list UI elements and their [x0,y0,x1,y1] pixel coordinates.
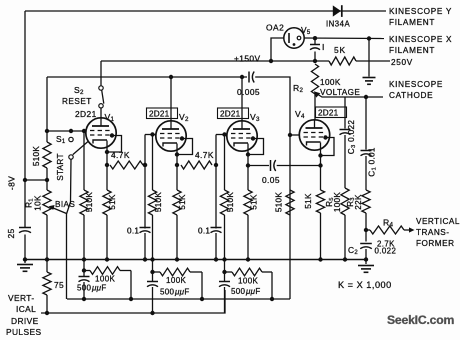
node -8V on left line [23,178,27,182]
wire V5 right to kinescope X line [304,37,384,40]
resistor R1 10K bias pot [43,190,51,215]
svg-text:K = X 1,000: K = X 1,000 [338,280,392,290]
node V1 grid dash end [110,133,114,137]
svg-text:100K: 100K [320,78,341,87]
wire C1 column top [365,97,367,150]
wire 4.7K to V2 grid col [143,164,145,166]
capacitor C2 0.022 [360,243,372,245]
node net1 right on bias rail [129,297,133,301]
wire 510K to net1 [83,215,85,271]
node 4.7K-2 right [214,163,218,167]
svg-text:4.7K: 4.7K [195,150,214,160]
node bus x=107 [105,257,109,261]
wire S2 to V1 plate [100,108,102,118]
node bus x=25 [23,257,27,261]
node cap1 top [313,36,317,40]
node net3 right on bias rail [270,297,274,301]
svg-text:KINESCOPE X: KINESCOPE X [389,35,452,44]
wire 51K V1 to bus [106,215,108,259]
resistor 4.7K (1) [110,161,143,169]
svg-text:KINESCOPE: KINESCOPE [389,80,443,89]
R1 wiper arrow [52,208,67,214]
svg-text:75: 75 [54,280,64,290]
resistor 100K (net3) [232,268,262,276]
wire R2 to V4 plate [314,94,316,120]
wire X filament drop [368,39,370,77]
switch S1 lever [73,142,88,155]
capacitor C3 0.022 [340,129,351,131]
label box 2D21 (V3) [218,108,249,119]
capacitor 500uuF (net1) [83,271,85,277]
resistor 510K (V2) [148,190,156,215]
V3 grid-cathode loop [248,139,264,155]
node bus x=47 [45,257,49,261]
node V2 4.7K-2 left [175,163,179,167]
node V3 grid dash end [251,136,255,140]
node V4 grid dash end [323,135,327,139]
svg-text:51K: 51K [108,194,117,210]
node V3 plate on line [240,75,244,79]
tube V4 2D21 [299,120,329,150]
svg-text:FILAMENT: FILAMENT [389,18,435,27]
V2 grid-cathode loop [177,139,193,155]
capacitor 500uuF (net2) [152,272,154,281]
wire V2 cathode column [176,144,178,191]
svg-text:22K: 22K [354,194,363,210]
svg-text:5K: 5K [334,45,346,55]
node V1 grid wire left [45,129,49,133]
resistor 5K [329,57,356,65]
node V4 0.05 tap [318,163,322,167]
svg-text:0.022: 0.022 [375,247,397,256]
svg-text:100K: 100K [238,277,259,286]
V5 anode bar [288,33,290,43]
wire 51K V3 to bus [247,215,249,259]
wire V3 plate column [241,77,243,121]
svg-text:C1 0.01: C1 0.01 [368,147,378,177]
V1 grid-cathode loop [107,136,122,153]
wire V2 grid coupling column [144,135,146,229]
svg-text:FORMER: FORMER [416,239,454,248]
wire V4 510K column [289,190,291,299]
node -8V tap [45,178,49,182]
node V1 4.7K left [105,163,109,167]
wire V2 plate column [170,77,172,121]
wire 0.1 V3 to bus [215,233,217,259]
resistor 510K (V1 grid) [43,142,51,168]
svg-text:IN34A: IN34A [326,20,350,29]
resistor 100K (net1) [90,267,120,275]
svg-text:I: I [322,42,325,52]
wire bias rail [67,298,290,300]
capacitor 0.005 [248,72,250,83]
label box 2D21 (V4) [316,107,347,118]
wire C3 column top [344,97,346,129]
node net1 cap on bias rail [82,297,86,301]
wire left feedback line (upper) [24,11,26,227]
node 510K tap V1 [82,129,86,133]
wire C3 to R5 [344,135,346,188]
wire C2 column [365,230,367,242]
net2 right edge [201,272,203,299]
capacitor 0.05 [270,160,272,171]
capacitor 0.1 (V3) [211,227,222,229]
svg-text:ICAL: ICAL [16,304,36,314]
V5 cathode dot electrode [297,36,301,40]
label box 2D21 (V2) [147,108,178,119]
svg-text:C3 0.022: C3 0.022 [347,120,357,155]
svg-text:500: 500 [231,287,245,296]
wire left feedback line (lower) [24,235,26,260]
wire V1 grid [47,130,86,132]
svg-text:BIAS: BIAS [55,200,75,209]
node net2 top [150,270,154,274]
resistor R2 100K [311,64,318,94]
net1 right edge [130,271,132,300]
net3 right edge [271,272,273,299]
wire ground bus [25,259,366,261]
wire V2 510K to net2 [152,215,154,272]
wire V3 grid stub [216,134,227,136]
svg-text:μμF: μμF [174,288,190,297]
svg-text:VERT-: VERT- [8,293,35,303]
wire S2 column [100,61,102,86]
tube V2 2D21 [156,121,186,151]
node V4 loop bottom [318,153,322,157]
node V3 510K stub [222,132,226,136]
wire pulse rail [41,290,225,313]
svg-text:10K: 10K [34,195,43,211]
node wiper to C1 [364,95,368,99]
svg-text:51K: 51K [250,194,259,210]
svg-text:510K: 510K [275,192,284,213]
node net3 top [222,270,226,274]
svg-text:500: 500 [77,284,91,293]
node bus x=224.5 [222,257,226,261]
node bus x=145 [143,257,147,261]
wire R1 to ground bus [46,215,48,259]
node R3/R4/C2 [364,228,368,232]
wire 51K V2 to bus [176,215,178,259]
resistor 51K (V1 cathode) [103,190,111,215]
switch S1 bottom contact [69,155,73,159]
svg-text:VOLTAGE: VOLTAGE [320,88,360,97]
diode IN34A [333,5,341,16]
wire V3 grid coupling column [215,135,217,229]
svg-text:2D21: 2D21 [318,109,339,118]
wire V2 grid stub [145,134,156,136]
resistor 4.7K (2) [181,161,212,169]
node net2 cap on pulse rail [150,311,154,315]
resistor 510K (V1 net) [80,190,88,215]
wire top feedback line to kinescope Y filament [25,10,386,12]
svg-text:μμF: μμF [91,284,107,293]
svg-text:0.1: 0.1 [127,227,139,236]
svg-text:100K: 100K [95,275,116,284]
svg-text:SeekIC.com: SeekIC.com [387,313,454,327]
wire 510K to R1 [46,168,48,190]
svg-text:2D21: 2D21 [220,110,241,119]
svg-text:CATHODE: CATHODE [389,91,433,100]
switch S2 lever [102,90,104,103]
net2 top edge [153,271,161,273]
svg-text:2D21: 2D21 [149,110,170,119]
wire 75 to pulse rail [46,295,48,313]
node 4.7K right [143,163,147,167]
capacitor 500uuF (net3) [224,272,226,281]
node V5 left leg to +150V [269,59,273,63]
svg-text:-8V: -8V [7,176,17,190]
svg-text:100K: 100K [166,276,187,285]
node net2 right on bias rail [200,297,204,301]
wire V1 510K column [83,131,85,190]
node cap1 bottom / R2 top [313,59,317,63]
svg-text:510K: 510K [32,146,41,167]
svg-text:μμF: μμF [245,287,261,296]
resistor R3 22K [362,190,370,213]
svg-text:0.1: 0.1 [198,227,210,236]
node kinescope X tap [367,36,371,40]
switch S2 bottom contact [99,104,103,108]
wire 0.1 V2 to bus [144,233,146,259]
wire R5 to bus [344,215,346,259]
node V2 plate on line [169,75,173,79]
svg-text:2D21: 2D21 [75,109,97,119]
svg-text:510K: 510K [85,192,94,213]
switch S1 top contact [69,137,73,141]
svg-text:+150V: +150V [234,54,260,64]
node S1 tap [69,129,73,133]
node V1 loop bottom [105,150,109,154]
svg-text:TRANS-: TRANS- [416,228,449,237]
node bus x=345 [343,257,347,261]
R4 output arrow [409,227,415,232]
resistor 51K (V3) [244,190,252,215]
resistor 510K (V4) [286,190,294,215]
wire 0.05 right [277,165,321,167]
capacitor 0.1 (V2) [140,227,151,229]
resistor 510K (V3) [220,190,228,215]
resistor 100K (net2) [160,268,190,276]
node bus x=320.5 [318,257,322,261]
capacitor C1 0.01 [361,150,372,152]
wire V3 cathode column [247,144,249,191]
svg-text:KINESCOPE Y: KINESCOPE Y [389,7,452,16]
svg-text:0.005: 0.005 [237,87,260,97]
wire cap1 column [314,38,316,45]
V5 starter dot [293,43,296,46]
wire R3 to node [365,213,367,230]
tube V5 OA2 envelope [284,28,304,48]
wire V5 left leg [271,38,284,61]
svg-text:500: 500 [160,288,174,297]
net3 top edge [225,271,233,273]
wire V3 510K column [224,135,226,191]
svg-text:FILAMENT: FILAMENT [389,46,435,55]
wire -8V tap [25,179,47,181]
node V2 grid 4.7K [143,163,147,167]
wire C1 to R3 [365,156,367,190]
svg-text:51K: 51K [304,193,313,209]
wire grid column V1 upper [46,77,48,142]
svg-text:START: START [56,153,65,181]
node bus x=248 [246,257,250,261]
svg-text:4.7K: 4.7K [111,150,130,160]
node V2 510K stub [150,132,154,136]
node 75 on pulse rail [45,311,49,315]
wire bus to 75 [46,260,48,273]
svg-text:RESET: RESET [62,97,92,106]
svg-text:510K: 510K [154,192,163,213]
R2 wiper arrow [318,94,384,97]
svg-text:0.05: 0.05 [262,175,280,185]
svg-text:25: 25 [6,228,16,238]
wire +150V rail [101,60,329,62]
switch S2 top contact [99,86,103,90]
node V3 0.05 tap [246,163,250,167]
svg-text:100K: 100K [333,192,342,213]
node V2 loop bottom [175,152,179,156]
svg-text:DRIVE: DRIVE [11,316,39,326]
wire S1 down [67,159,72,299]
node bus x=366 [364,257,368,261]
ground (250V line) [363,77,376,79]
V4 grid-cathode loop [321,138,335,156]
resistor R5 100K [341,188,349,215]
tube V1 2D21 [86,118,116,148]
node bus x=216 [214,257,218,261]
svg-text:510K: 510K [226,192,235,213]
wire V2/V3 plate line [47,76,247,78]
svg-text:VERTICAL: VERTICAL [416,217,460,226]
wire V1 cathode column [106,141,108,191]
resistor 51K (V2) [173,190,181,215]
wire V4 cathode column [320,143,322,191]
svg-text:51K: 51K [178,194,187,210]
svg-text:PULSES: PULSES [6,327,41,335]
resistor 51K (V4) [316,190,324,213]
node V3 loop bottom [246,152,250,156]
node net1 top [82,268,86,272]
svg-text:250V: 250V [391,58,413,67]
capacitor 1 [310,44,320,46]
wire C2 to bus [365,249,367,259]
wire V3 510K to net3 [224,215,226,272]
resistor 75 [43,272,51,295]
node bus x=177 [175,257,179,261]
tube V3 2D21 [227,121,257,151]
ground (left) [24,260,26,264]
svg-text:OA2: OA2 [266,23,284,33]
wire 0.005 to V4 grid column [255,77,290,190]
wire 0.05 left [248,165,269,167]
node V4 grid [288,133,292,137]
net1 top edge [84,270,90,272]
capacitor 25 (in left line) [19,227,31,229]
resistor R4 2.7K [366,229,370,231]
wire V4 grid stub [290,134,300,136]
wire 51K V4 to bus [320,213,322,259]
node bus x=84 [82,257,86,261]
wire V2 510K column [152,135,154,191]
node bus x=152.5 [150,257,154,261]
ground (C2) [365,260,367,265]
node V2 grid dash end [180,136,184,140]
